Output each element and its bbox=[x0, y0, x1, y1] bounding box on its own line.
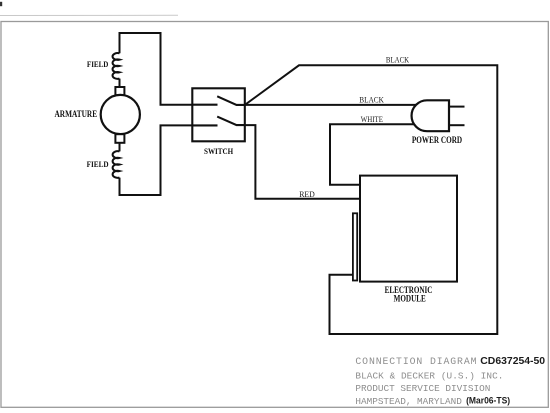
svg-text:CONNECTION DIAGRAM: CONNECTION DIAGRAM bbox=[355, 356, 476, 367]
field coil FIELD (bottom) bbox=[113, 151, 120, 178]
electronic module U1 box bbox=[360, 176, 457, 282]
wire from bottom brush to bottom field coil bbox=[119, 143, 121, 152]
svg-text:FIELD: FIELD bbox=[87, 159, 109, 169]
wire from bottom field coil down and right to switch lower input bbox=[120, 125, 193, 195]
switch S1 lower pole stub bbox=[192, 124, 217, 126]
switch S1 upper pole stub bbox=[192, 104, 217, 106]
armature motor bbox=[101, 95, 140, 134]
armature brush (top) bbox=[115, 87, 124, 96]
wire WHITE from power cord to module bbox=[330, 124, 420, 185]
svg-text:MODULE: MODULE bbox=[394, 293, 426, 303]
svg-text:BLACK: BLACK bbox=[386, 56, 409, 65]
svg-text:RED: RED bbox=[299, 190, 315, 199]
module connector strip bbox=[353, 213, 357, 280]
svg-text:PRODUCT SERVICE DIVISION: PRODUCT SERVICE DIVISION bbox=[355, 383, 490, 394]
title block text bbox=[355, 356, 503, 407]
svg-text:WHITE: WHITE bbox=[361, 115, 383, 124]
svg-text:ARMATURE: ARMATURE bbox=[55, 109, 98, 119]
wire BLACK from switch upper output around right side to module connector bbox=[245, 65, 497, 334]
svg-text:HAMPSTEAD, MARYLAND: HAMPSTEAD, MARYLAND bbox=[355, 396, 462, 407]
switch S1 lower blade bbox=[217, 117, 245, 126]
power cord plug body bbox=[412, 100, 449, 131]
svg-text:(Mar06-TS): (Mar06-TS) bbox=[466, 396, 510, 406]
svg-text:CD637254-50: CD637254-50 bbox=[480, 356, 545, 367]
power cord prong (bottom) bbox=[449, 124, 465, 126]
field coil FIELD (top) bbox=[113, 53, 120, 79]
wire RED from switch lower output to module bbox=[245, 125, 360, 199]
svg-text:BLACK & DECKER (U.S.) INC.: BLACK & DECKER (U.S.) INC. bbox=[355, 371, 503, 382]
svg-text:POWER CORD: POWER CORD bbox=[412, 135, 463, 145]
armature brush (bottom) bbox=[115, 134, 124, 143]
wire from top field coil to top brush bbox=[119, 79, 121, 88]
switch S1 box bbox=[192, 88, 245, 141]
svg-text:SWITCH: SWITCH bbox=[204, 147, 234, 156]
wire BLACK from switch upper output to power cord bbox=[245, 104, 420, 106]
svg-text:FIELD: FIELD bbox=[87, 59, 109, 69]
switch S1 upper blade bbox=[217, 96, 245, 105]
power cord prong (top) bbox=[449, 106, 465, 108]
wire from top field coil up and right to switch upper input bbox=[120, 33, 193, 105]
svg-text:BLACK: BLACK bbox=[359, 96, 384, 105]
